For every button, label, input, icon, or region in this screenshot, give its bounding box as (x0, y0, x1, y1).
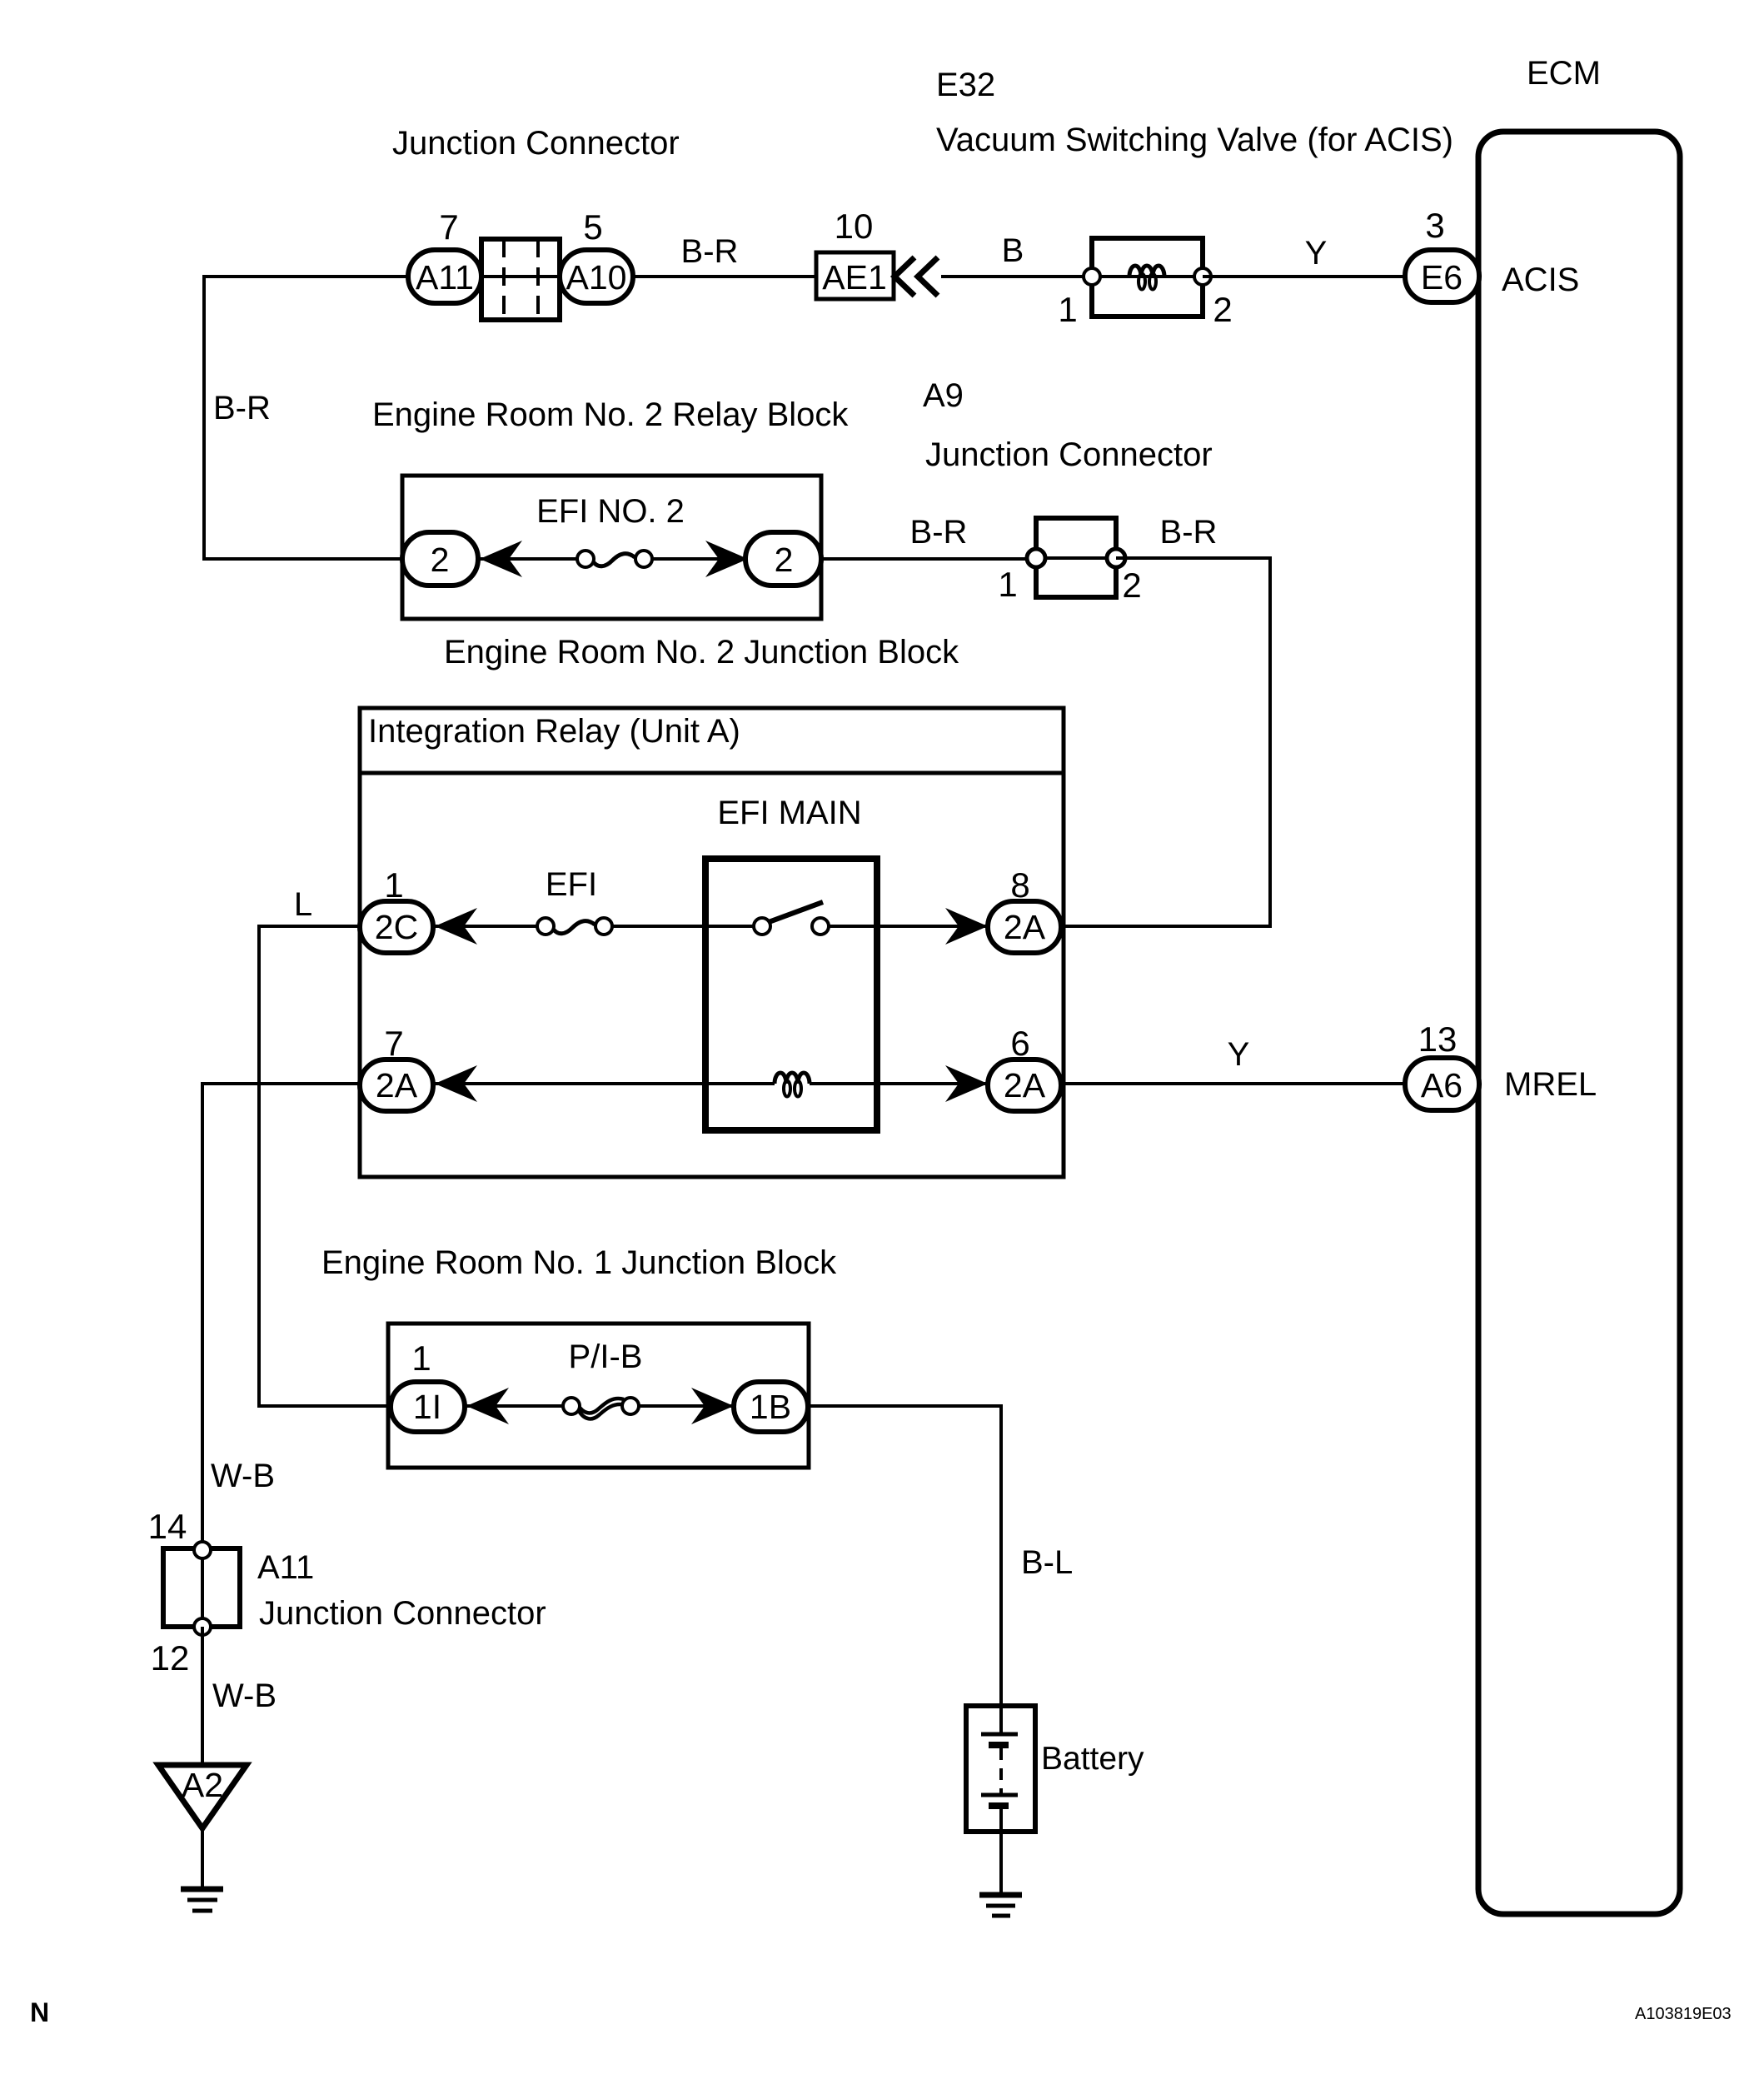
svg-text:Integration Relay (Unit A): Integration Relay (Unit A) (368, 713, 740, 750)
fuse EFI NO.2 (592, 554, 635, 566)
wire inside VSV (1092, 275, 1203, 278)
svg-text:EFI: EFI (546, 866, 597, 903)
arrow (right, EFI NO.2) (705, 541, 748, 577)
VSV E32 box (1092, 238, 1203, 317)
svg-text:B-R: B-R (1160, 514, 1218, 551)
svg-text:2: 2 (1213, 290, 1232, 329)
svg-text:2: 2 (431, 541, 450, 579)
svg-text:6: 6 (1010, 1024, 1029, 1063)
svg-text:1: 1 (384, 865, 403, 905)
connector oval A10 (top) (560, 250, 633, 303)
wire: EFI NO.2 to A9 connector (821, 557, 1036, 561)
svg-text:Junction Connector: Junction Connector (925, 436, 1213, 473)
wire: chevrons to VSV (941, 275, 1092, 278)
terminal oval 1B (734, 1382, 808, 1432)
svg-text:ACIS: ACIS (1502, 262, 1579, 298)
wire: left B-R into EFI NO.2 (202, 557, 402, 561)
svg-text:1: 1 (411, 1339, 431, 1378)
arrow (left, EFI NO.2) (480, 541, 522, 577)
wire: row2 left segment (360, 1082, 775, 1085)
svg-text:2A: 2A (1004, 1066, 1046, 1104)
svg-text:Junction Connector: Junction Connector (259, 1595, 546, 1632)
svg-text:P/I-B: P/I-B (569, 1339, 643, 1375)
svg-text:Engine Room No. 2 Relay Block: Engine Room No. 2 Relay Block (372, 396, 849, 433)
svg-text:Battery: Battery (1041, 1741, 1144, 1777)
svg-text:2A: 2A (1004, 908, 1046, 946)
svg-text:B-R: B-R (910, 514, 968, 551)
EFI NO.2 relay block box (402, 476, 821, 619)
svg-text:L: L (294, 886, 312, 923)
terminal oval 2 (right) (745, 532, 821, 586)
wire: into relay pin 8 (1061, 925, 1272, 928)
svg-text:EFI NO. 2: EFI NO. 2 (536, 493, 685, 530)
svg-text:B: B (1002, 232, 1024, 269)
svg-text:2: 2 (1122, 566, 1141, 605)
wire: inside P/I-B row (388, 1404, 571, 1408)
svg-text:3: 3 (1425, 206, 1444, 245)
wire: from 2C left then down to P/I-B (259, 926, 391, 1406)
connector box AE1 (816, 252, 894, 299)
wire: top-left horizontal B-R (204, 275, 408, 278)
A9 terminal 1 (1027, 549, 1045, 567)
terminal oval 2A (pin6) (988, 1059, 1061, 1111)
svg-text:2A: 2A (376, 1066, 418, 1104)
wire: VSV to E6 (1203, 275, 1408, 278)
svg-text:A10: A10 (566, 258, 627, 297)
svg-text:10: 10 (835, 207, 874, 246)
connector oval A11 (top) (408, 250, 481, 303)
box border overlay: Integration Relay (360, 708, 1064, 1177)
svg-text:B-R: B-R (213, 390, 271, 426)
battery box (966, 1706, 1035, 1832)
relay coil (775, 1073, 810, 1097)
arrow (left, P/I-B) (466, 1388, 509, 1424)
svg-text:2C: 2C (375, 908, 418, 946)
svg-text:8: 8 (1010, 865, 1029, 905)
svg-text:1: 1 (1058, 290, 1077, 329)
wire: row2 right segment (810, 1082, 1064, 1085)
svg-text:7: 7 (439, 207, 458, 247)
A11 terminal 14 (194, 1542, 211, 1558)
wire: row1 right segment (829, 925, 1064, 928)
wire: A2 to ground (201, 1828, 204, 1887)
terminal oval 1I (391, 1382, 465, 1432)
svg-text:1: 1 (998, 565, 1017, 604)
wire: 1B right then down to battery (808, 1406, 1001, 1706)
switch blade (769, 902, 823, 922)
connector oval A6 (1405, 1058, 1479, 1110)
connector oval E6 (1405, 250, 1479, 302)
wire: inside EFI NO.2 row (402, 557, 586, 561)
svg-text:A11: A11 (257, 1549, 314, 1586)
ground connector triangle A2 (158, 1765, 247, 1828)
arrow (right of row1) (945, 908, 988, 945)
junction connector A9 box (1036, 518, 1116, 597)
wire: MREL row (1061, 1082, 1408, 1085)
A11 terminal 12 (194, 1618, 211, 1635)
svg-text:Vacuum Switching Valve (for AC: Vacuum Switching Valve (for ACIS) (936, 122, 1453, 158)
svg-text:E32: E32 (936, 67, 995, 103)
svg-text:7: 7 (384, 1024, 403, 1063)
svg-text:W-B: W-B (212, 1678, 277, 1714)
arrow (left of row2) (435, 1065, 477, 1102)
svg-text:Junction Connector: Junction Connector (392, 125, 680, 162)
svg-text:5: 5 (583, 207, 602, 247)
arrow (right, P/I-B) (691, 1388, 734, 1424)
junction connector A11 (bottom) box (163, 1548, 240, 1627)
box border overlay: EFI NO.2 (402, 476, 821, 619)
svg-text:MREL: MREL (1504, 1066, 1597, 1103)
fuse EFI (552, 921, 595, 934)
fusible link P/I-B (578, 1398, 625, 1418)
svg-text:1I: 1I (413, 1388, 441, 1426)
arrow (right of row2) (945, 1065, 988, 1102)
svg-text:ECM: ECM (1527, 55, 1601, 92)
A9 terminal 2 (1107, 549, 1125, 567)
svg-text:Y: Y (1305, 235, 1328, 272)
ground symbol (A2) (181, 1887, 223, 1892)
arrow (left of row1) (435, 908, 477, 945)
svg-text:N: N (30, 1997, 49, 2027)
wire: right vertical down (1268, 556, 1272, 926)
battery internals (999, 1706, 1003, 1733)
svg-text:A9: A9 (923, 377, 964, 414)
Integration Relay outer box (360, 708, 1064, 1177)
VSV terminal 2 (1194, 268, 1211, 285)
wire: left vertical B-R down to EFI NO.2 (202, 275, 206, 559)
terminal oval 2C (360, 901, 433, 953)
inner relay box (705, 859, 877, 1130)
svg-text:13: 13 (1418, 1020, 1458, 1059)
svg-text:A2: A2 (182, 1766, 223, 1804)
svg-text:B-L: B-L (1021, 1544, 1073, 1581)
terminal oval 2A (pin8) (988, 901, 1061, 953)
Integration Relay header line (360, 771, 1064, 775)
switch contact left (754, 918, 770, 935)
terminal oval 2A (pin7) (360, 1059, 433, 1111)
svg-text:12: 12 (151, 1638, 190, 1678)
VSV terminal 1 (1084, 268, 1100, 285)
svg-text:A6: A6 (1421, 1066, 1463, 1104)
svg-text:Y: Y (1228, 1036, 1250, 1073)
junction connector block (top) (481, 239, 560, 320)
svg-text:AE1: AE1 (822, 258, 887, 297)
P/I-B junction block box (388, 1324, 809, 1468)
svg-text:14: 14 (148, 1507, 187, 1546)
wire: from 2A(7) left then down to A11 (202, 1084, 360, 1550)
wire: A9 to right vertical (1116, 556, 1270, 560)
terminal oval 2 (left) (402, 532, 478, 586)
switch contact right (812, 918, 829, 935)
wire: battery to ground (999, 1832, 1003, 1892)
wire: A10 to AE1 (633, 275, 816, 278)
ECM body (1478, 132, 1680, 1914)
svg-text:E6: E6 (1421, 258, 1463, 297)
svg-text:1B: 1B (750, 1388, 791, 1426)
svg-text:A103819E03: A103819E03 (1635, 2005, 1732, 2023)
svg-text:Engine Room No. 1 Junction Blo: Engine Room No. 1 Junction Block (321, 1244, 837, 1281)
svg-text:B-R: B-R (681, 233, 739, 270)
svg-text:W-B: W-B (211, 1458, 275, 1494)
box border overlay: P/I-B (388, 1324, 809, 1468)
VSV coil (1129, 266, 1164, 290)
svg-text:A11: A11 (416, 258, 474, 297)
svg-text:2: 2 (775, 541, 794, 579)
wire: A11 to A2 triangle (201, 1627, 204, 1762)
svg-text:EFI MAIN: EFI MAIN (717, 795, 861, 831)
ground symbol (battery) (979, 1892, 1022, 1898)
wire: row1 left segment (360, 925, 546, 928)
shield arrows (double chevron) (894, 257, 914, 296)
svg-text:Engine Room No. 2 Junction Blo: Engine Room No. 2 Junction Block (444, 634, 959, 671)
